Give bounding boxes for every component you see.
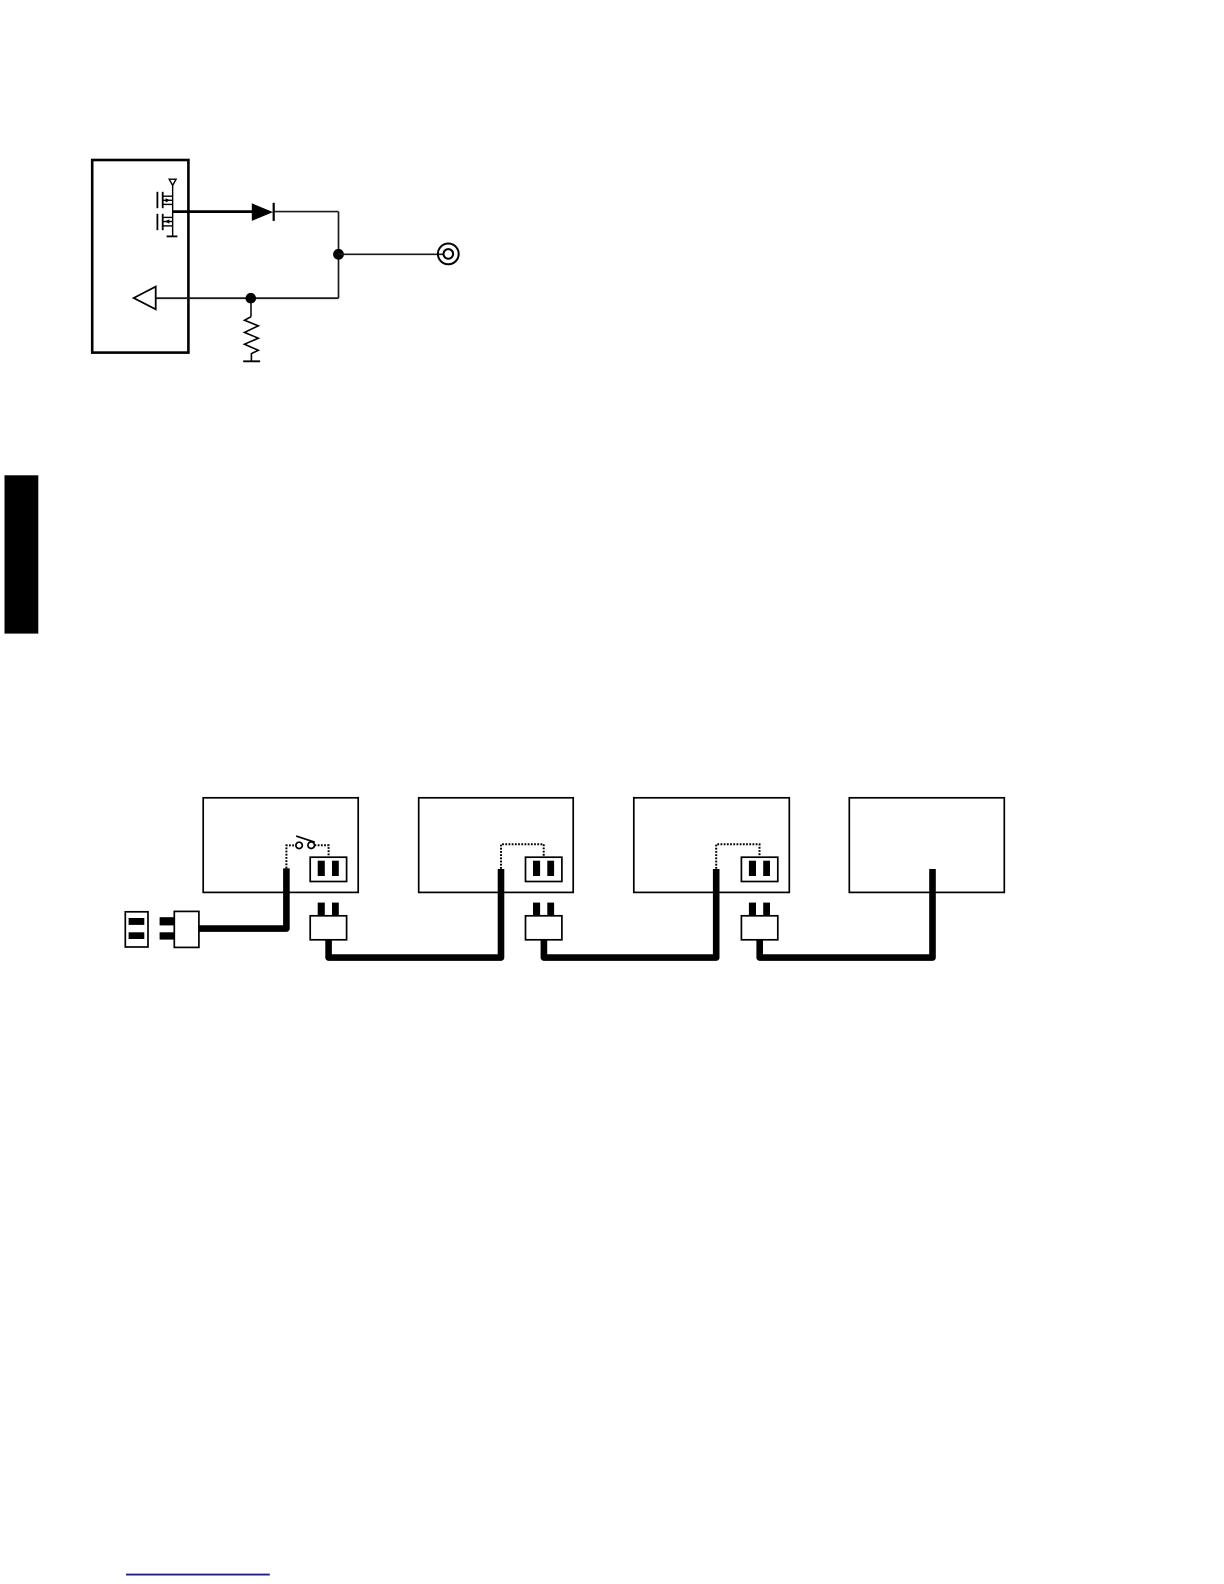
RCA jack J1 — [438, 244, 459, 265]
device box U1 — [92, 160, 188, 353]
transistor Q1 (PMOS) — [157, 192, 172, 208]
node: output junction — [333, 249, 344, 260]
outlet (device 1) — [310, 857, 346, 881]
outlet (device 3) — [741, 857, 777, 881]
power switch (device 1) — [296, 836, 315, 849]
wire: vertical drop to lower net — [338, 212, 340, 299]
dotted link: riser to switch (device 1) — [286, 845, 296, 868]
device 1 box — [203, 798, 358, 893]
dotted link: riser to outlet (device 3) — [716, 844, 759, 869]
mains plug — [160, 911, 199, 947]
wall outlet — [125, 912, 148, 947]
wire: lower net (jack to buffer) — [156, 297, 339, 299]
device 4 box — [849, 798, 1004, 893]
wire: diode to corner — [274, 211, 339, 213]
outlet (device 2) — [526, 857, 562, 881]
wire: output to diode (thick) — [173, 210, 252, 213]
plug under device 3 — [741, 903, 777, 940]
transistor Q2 (NMOS) — [157, 214, 172, 230]
device 3 box — [634, 798, 790, 893]
wire: node to jack — [339, 253, 444, 255]
dotted link: riser to outlet (device 2) — [501, 844, 544, 869]
dotted link: switch to outlet (device 1) — [315, 845, 329, 857]
rail between transistors — [172, 196, 174, 226]
footer rule — [126, 1574, 270, 1576]
node: resistor tap — [246, 293, 257, 304]
wire NMOS source to ground — [172, 226, 174, 237]
ground (CMOS stage) — [167, 235, 178, 237]
device 2 box — [419, 798, 574, 893]
supply symbol — [169, 179, 176, 196]
resistor R1 — [245, 298, 259, 361]
power cord: device2 plug to device 3 — [544, 869, 716, 958]
buffer amp A1 — [134, 287, 156, 310]
power cord: mains plug to device 1 — [199, 868, 287, 928]
plug under device 1 — [310, 903, 346, 940]
plug under device 2 — [526, 903, 562, 940]
power cord: device1 plug to device 2 — [329, 869, 501, 958]
ground (resistor) — [243, 360, 260, 362]
diode D1 — [252, 203, 274, 221]
power cord: device3 plug to device 4 — [760, 869, 933, 958]
sidebar tab — [5, 475, 39, 633]
